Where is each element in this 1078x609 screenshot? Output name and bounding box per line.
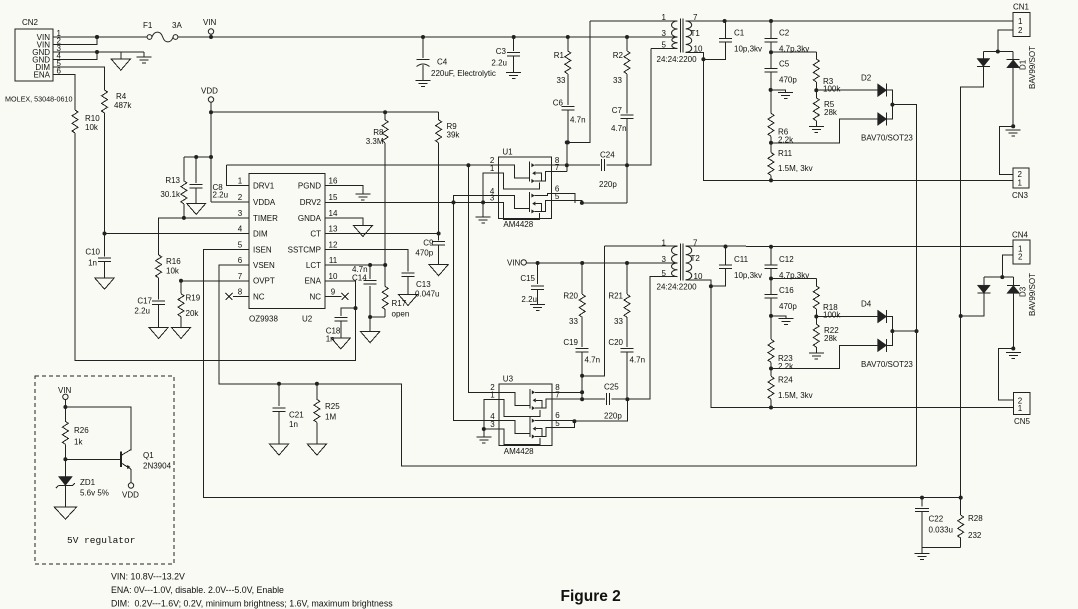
svg-text:0.033u: 0.033u (929, 526, 953, 535)
svg-text:20k: 20k (186, 309, 200, 318)
svg-text:R13: R13 (165, 176, 180, 185)
svg-text:BAV99/SOT: BAV99/SOT (1028, 273, 1037, 316)
svg-text:220uF, Electrolytic: 220uF, Electrolytic (431, 69, 496, 78)
svg-text:100k: 100k (823, 311, 841, 320)
svg-text:NC: NC (309, 292, 321, 301)
svg-text:C3: C3 (496, 47, 507, 56)
svg-text:VIN: VIN (58, 386, 72, 395)
svg-text:VDDA: VDDA (253, 198, 276, 207)
svg-text:CN3: CN3 (1012, 191, 1029, 200)
svg-text:470p: 470p (415, 249, 433, 258)
svg-text:5: 5 (662, 269, 667, 278)
svg-text:1: 1 (1018, 179, 1023, 188)
svg-text:10p,3kv: 10p,3kv (734, 45, 762, 54)
svg-text:1k: 1k (74, 438, 83, 447)
svg-text:U1: U1 (502, 148, 513, 157)
svg-text:BAV70/SOT23: BAV70/SOT23 (861, 360, 913, 369)
svg-text:C4: C4 (437, 58, 448, 67)
svg-text:6: 6 (238, 256, 243, 265)
svg-text:CN2: CN2 (22, 18, 39, 27)
svg-text:15: 15 (329, 193, 338, 202)
svg-text:C2: C2 (779, 29, 790, 38)
svg-text:1n: 1n (326, 335, 335, 344)
svg-text:3: 3 (662, 29, 667, 38)
svg-text:4.7n: 4.7n (570, 116, 586, 125)
svg-text:C13: C13 (416, 280, 431, 289)
svg-text:10k: 10k (85, 123, 99, 132)
svg-text:28k: 28k (824, 108, 838, 117)
svg-text:3A: 3A (172, 21, 182, 30)
svg-text:R25: R25 (325, 402, 340, 411)
svg-text:4.7n: 4.7n (611, 124, 627, 133)
svg-text:C15: C15 (520, 274, 535, 283)
svg-text:1n: 1n (88, 259, 97, 268)
svg-text:C20: C20 (608, 338, 623, 347)
svg-text:R17: R17 (392, 299, 407, 308)
svg-text:232: 232 (968, 531, 982, 540)
svg-text:30.1k: 30.1k (160, 190, 181, 199)
svg-text:R1: R1 (554, 51, 565, 60)
svg-text:C10: C10 (85, 248, 100, 257)
svg-text:AM4428: AM4428 (504, 447, 534, 456)
svg-text:C9: C9 (423, 239, 434, 248)
svg-text:VIN: VIN (507, 258, 521, 267)
svg-text:12: 12 (329, 240, 338, 249)
svg-text:C21: C21 (289, 411, 304, 420)
svg-text:33: 33 (613, 76, 622, 85)
svg-text:33: 33 (569, 317, 578, 326)
svg-text:C17: C17 (137, 297, 152, 306)
svg-text:220p: 220p (604, 412, 622, 421)
svg-text:1: 1 (490, 164, 495, 173)
svg-text:R11: R11 (778, 149, 793, 158)
svg-text:CN1: CN1 (1013, 3, 1030, 12)
svg-text:0.047u: 0.047u (415, 290, 439, 299)
svg-text:470p: 470p (779, 76, 797, 85)
svg-text:R21: R21 (608, 292, 623, 301)
svg-text:220p: 220p (599, 180, 617, 189)
svg-text:5: 5 (238, 240, 243, 249)
svg-text:16: 16 (329, 177, 338, 186)
svg-text:VDD: VDD (201, 87, 218, 96)
svg-text:14: 14 (329, 209, 338, 218)
svg-text:2.2k: 2.2k (778, 362, 794, 371)
svg-text:C24: C24 (600, 151, 615, 160)
svg-text:10p,3kv: 10p,3kv (734, 271, 762, 280)
svg-text:CT: CT (310, 229, 321, 238)
svg-text:C19: C19 (563, 338, 578, 347)
svg-text:C25: C25 (604, 383, 619, 392)
svg-text:470p: 470p (779, 302, 797, 311)
svg-text:C12: C12 (779, 255, 794, 264)
svg-text:100k: 100k (823, 85, 841, 94)
svg-text:2.2u: 2.2u (213, 191, 229, 200)
svg-text:5V regulator: 5V regulator (67, 535, 135, 546)
svg-text:10: 10 (329, 272, 338, 281)
svg-text:R8: R8 (373, 128, 384, 137)
svg-text:C7: C7 (612, 106, 623, 115)
svg-text:CN5: CN5 (1014, 417, 1031, 426)
svg-text:PGND: PGND (298, 181, 321, 190)
svg-text:2.2u: 2.2u (491, 59, 507, 68)
svg-text:R24: R24 (778, 375, 793, 384)
svg-text:2: 2 (1018, 26, 1023, 35)
svg-text:open: open (392, 310, 410, 319)
svg-text:SSTCMP: SSTCMP (288, 245, 321, 254)
svg-text:ISEN: ISEN (253, 245, 272, 254)
svg-text:7: 7 (555, 163, 560, 172)
svg-text:11: 11 (329, 256, 338, 265)
svg-text:7: 7 (238, 272, 243, 281)
svg-text:2.2k: 2.2k (778, 136, 794, 145)
svg-text:DRV2: DRV2 (300, 198, 322, 207)
svg-text:BAV99/SOT: BAV99/SOT (1028, 46, 1037, 89)
svg-text:T1: T1 (691, 29, 701, 38)
svg-text:33: 33 (557, 76, 566, 85)
svg-text:C5: C5 (779, 60, 790, 69)
svg-text:Q1: Q1 (143, 451, 154, 460)
svg-text:4.7n: 4.7n (630, 356, 646, 365)
svg-text:3.3M: 3.3M (366, 137, 384, 146)
svg-text:C16: C16 (779, 286, 794, 295)
svg-text:1: 1 (238, 177, 243, 186)
svg-text:U3: U3 (503, 375, 514, 384)
svg-text:1: 1 (490, 390, 495, 399)
svg-text:10k: 10k (166, 267, 180, 276)
svg-text:3: 3 (662, 255, 667, 264)
svg-text:C6: C6 (553, 99, 564, 108)
svg-text:R19: R19 (186, 294, 201, 303)
svg-text:33: 33 (614, 317, 623, 326)
svg-text:2.2u: 2.2u (521, 295, 537, 304)
svg-text:1.5M, 3kv: 1.5M, 3kv (778, 164, 813, 173)
svg-text:T2: T2 (691, 254, 701, 263)
svg-text:24:24:2200: 24:24:2200 (657, 55, 698, 64)
svg-text:4: 4 (238, 225, 243, 234)
svg-text:TIMER: TIMER (253, 214, 278, 223)
svg-text:BAV70/SOT23: BAV70/SOT23 (861, 134, 913, 143)
svg-text:VSEN: VSEN (253, 261, 275, 270)
svg-text:F1: F1 (143, 21, 153, 30)
svg-text:D3: D3 (1019, 286, 1028, 297)
svg-text:OZ9938: OZ9938 (249, 315, 278, 324)
svg-text:28k: 28k (824, 334, 838, 343)
svg-text:8: 8 (238, 287, 243, 296)
svg-text:D4: D4 (861, 300, 872, 309)
svg-text:3: 3 (490, 194, 495, 203)
svg-text:OVPT: OVPT (253, 277, 275, 286)
svg-text:CN4: CN4 (1012, 231, 1029, 240)
svg-text:1: 1 (1018, 17, 1023, 26)
svg-text:9: 9 (331, 287, 336, 296)
svg-text:U2: U2 (302, 315, 313, 324)
svg-text:1: 1 (1018, 404, 1023, 413)
svg-text:2: 2 (1018, 252, 1023, 261)
svg-text:ZD1: ZD1 (80, 478, 96, 487)
svg-text:487k: 487k (114, 101, 132, 110)
svg-text:DRV1: DRV1 (253, 181, 275, 190)
svg-text:R26: R26 (74, 426, 89, 435)
svg-text:R16: R16 (166, 257, 181, 266)
svg-text:R4: R4 (116, 92, 127, 101)
svg-text:3: 3 (490, 420, 495, 429)
svg-text:D2: D2 (861, 74, 872, 83)
svg-text:R10: R10 (85, 114, 100, 123)
svg-text:DIM: 0.2V---1.6V; 0.2V, minim: DIM: 0.2V---1.6V; 0.2V, minimum brightne… (111, 599, 393, 609)
svg-text:5.6v 5%: 5.6v 5% (80, 489, 109, 498)
svg-text:1.5M, 3kv: 1.5M, 3kv (778, 391, 813, 400)
svg-text:VDD: VDD (122, 491, 139, 500)
svg-text:LCT: LCT (306, 261, 321, 270)
svg-text:1n: 1n (289, 420, 298, 429)
svg-text:4.7n: 4.7n (585, 356, 601, 365)
svg-text:C22: C22 (929, 515, 944, 524)
svg-text:ENA: ENA (34, 71, 51, 80)
svg-text:ENA: 0V---1.0V, disable. 2.0V-: ENA: 0V---1.0V, disable. 2.0V---5.0V, En… (111, 585, 284, 595)
svg-text:24:24:2200: 24:24:2200 (657, 282, 698, 291)
svg-text:VIN: 10.8V---13.2V: VIN: 10.8V---13.2V (111, 572, 185, 582)
svg-text:13: 13 (329, 225, 338, 234)
svg-text:C1: C1 (734, 29, 745, 38)
svg-text:C11: C11 (734, 255, 749, 264)
svg-text:NC: NC (253, 292, 265, 301)
svg-text:VIN: VIN (203, 18, 217, 27)
svg-text:D1: D1 (1019, 59, 1028, 70)
svg-text:R28: R28 (968, 514, 983, 523)
svg-text:2N3904: 2N3904 (143, 462, 172, 471)
svg-text:2.2u: 2.2u (134, 307, 150, 316)
svg-text:AM4428: AM4428 (503, 220, 533, 229)
svg-text:R2: R2 (613, 51, 624, 60)
svg-text:Figure 2: Figure 2 (561, 588, 621, 605)
svg-text:39k: 39k (447, 131, 461, 140)
svg-text:R20: R20 (563, 292, 578, 301)
svg-text:MOLEX, 53048-0610: MOLEX, 53048-0610 (5, 95, 73, 104)
svg-text:3: 3 (238, 209, 243, 218)
svg-text:DIM: DIM (253, 229, 268, 238)
svg-text:1M: 1M (325, 413, 336, 422)
svg-text:GNDA: GNDA (298, 214, 322, 223)
svg-text:ENA: ENA (305, 277, 322, 286)
svg-text:2: 2 (238, 193, 243, 202)
